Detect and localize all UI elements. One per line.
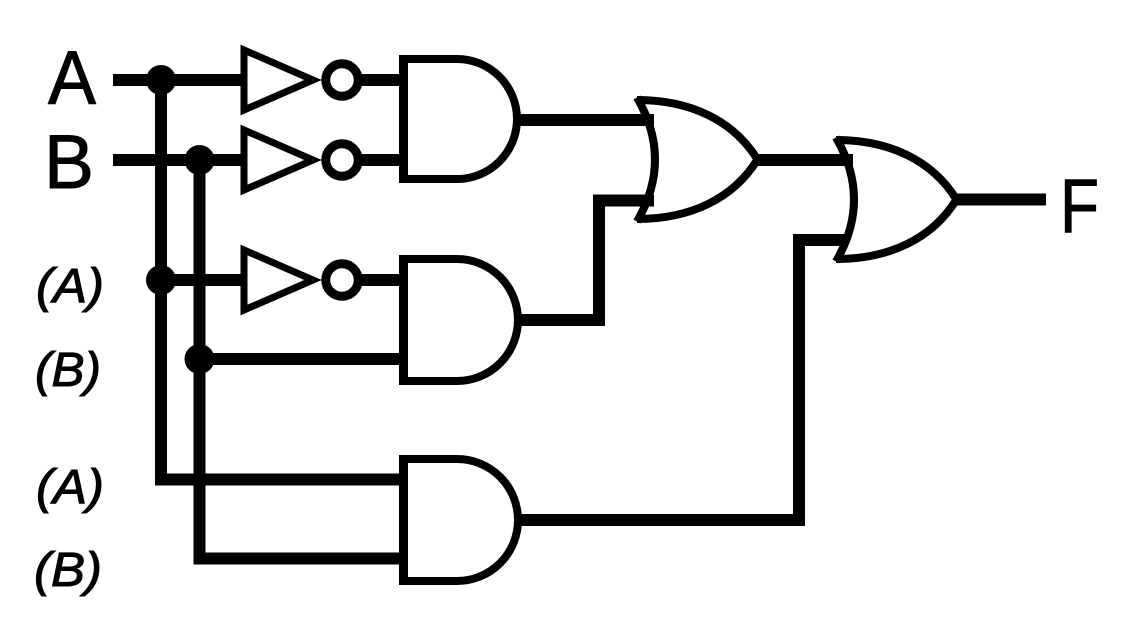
wire inverter U2 output to AND1 input 2 [359,154,407,166]
svg-text:B: B [44,120,94,205]
junction dot net B middle [185,344,215,374]
and-gate AND1 left bar [399,55,408,183]
junction dot net B top [185,145,215,175]
wire OR2 input 1 stub [840,154,853,166]
or-gate OR2 bottom curve [836,200,957,260]
junction dot net A middle [146,265,176,295]
and-gate AND2 [403,259,518,381]
inverter U1 bubble [326,64,359,97]
wire branch net A to inverter U3 [161,274,248,286]
or-gate OR1 bottom curve [637,160,758,220]
inverter U1 triangle [244,50,313,110]
or-gate OR2 body fill [836,140,957,259]
svg-text:A: A [48,36,96,121]
wire AND3 output riser to OR2 input 2 [515,240,846,520]
or-gate OR1 top curve [637,100,758,160]
svg-text:(B): (B) [35,344,101,397]
and-gate AND1 [403,59,517,179]
wire AND2 output riser to OR1 input 2 [515,201,654,321]
wire inverter U3 output to AND2 input 1 [359,274,407,286]
inverter U2 bubble [326,144,359,177]
svg-text:(A): (A) [36,461,104,514]
or-gate OR2 top curve [836,140,957,200]
or-gate OR1 left arc [637,98,655,222]
wire net A vertical bus with bottom branch to AND3 input 1 [161,80,407,480]
svg-text:F: F [1060,164,1099,249]
wire OR1 output to OR2 input 1 [755,154,853,166]
wire inverter U1 output to AND1 input 1 [359,74,407,86]
wire input A [113,74,248,86]
wire net B vertical bus with bottom branch to AND3 input 2 [200,160,408,559]
and-gate AND3 [403,459,518,581]
wire OR2 input 2 stub [840,234,846,246]
inverter U3 bubble [326,264,359,297]
wire branch net B to AND2 input 2 [200,353,408,365]
svg-text:(B): (B) [34,544,102,597]
junction dot net A top [146,65,176,95]
inverter U3 triangle [244,250,313,310]
wire AND1 output to OR1 input 1 [515,114,654,126]
inverter U2 triangle [244,130,313,190]
wire input B [113,154,248,166]
wire OR1 input 2 stub [640,195,654,207]
and-gate AND3 left bar [399,455,408,585]
wire OR2 output to F [954,194,1046,206]
wire OR1 input 1 stub [640,114,654,126]
svg-text:(A): (A) [36,260,104,313]
or-gate OR2 left arc [836,138,854,262]
and-gate AND2 left bar [399,255,408,385]
or-gate OR1 body fill [637,100,758,219]
